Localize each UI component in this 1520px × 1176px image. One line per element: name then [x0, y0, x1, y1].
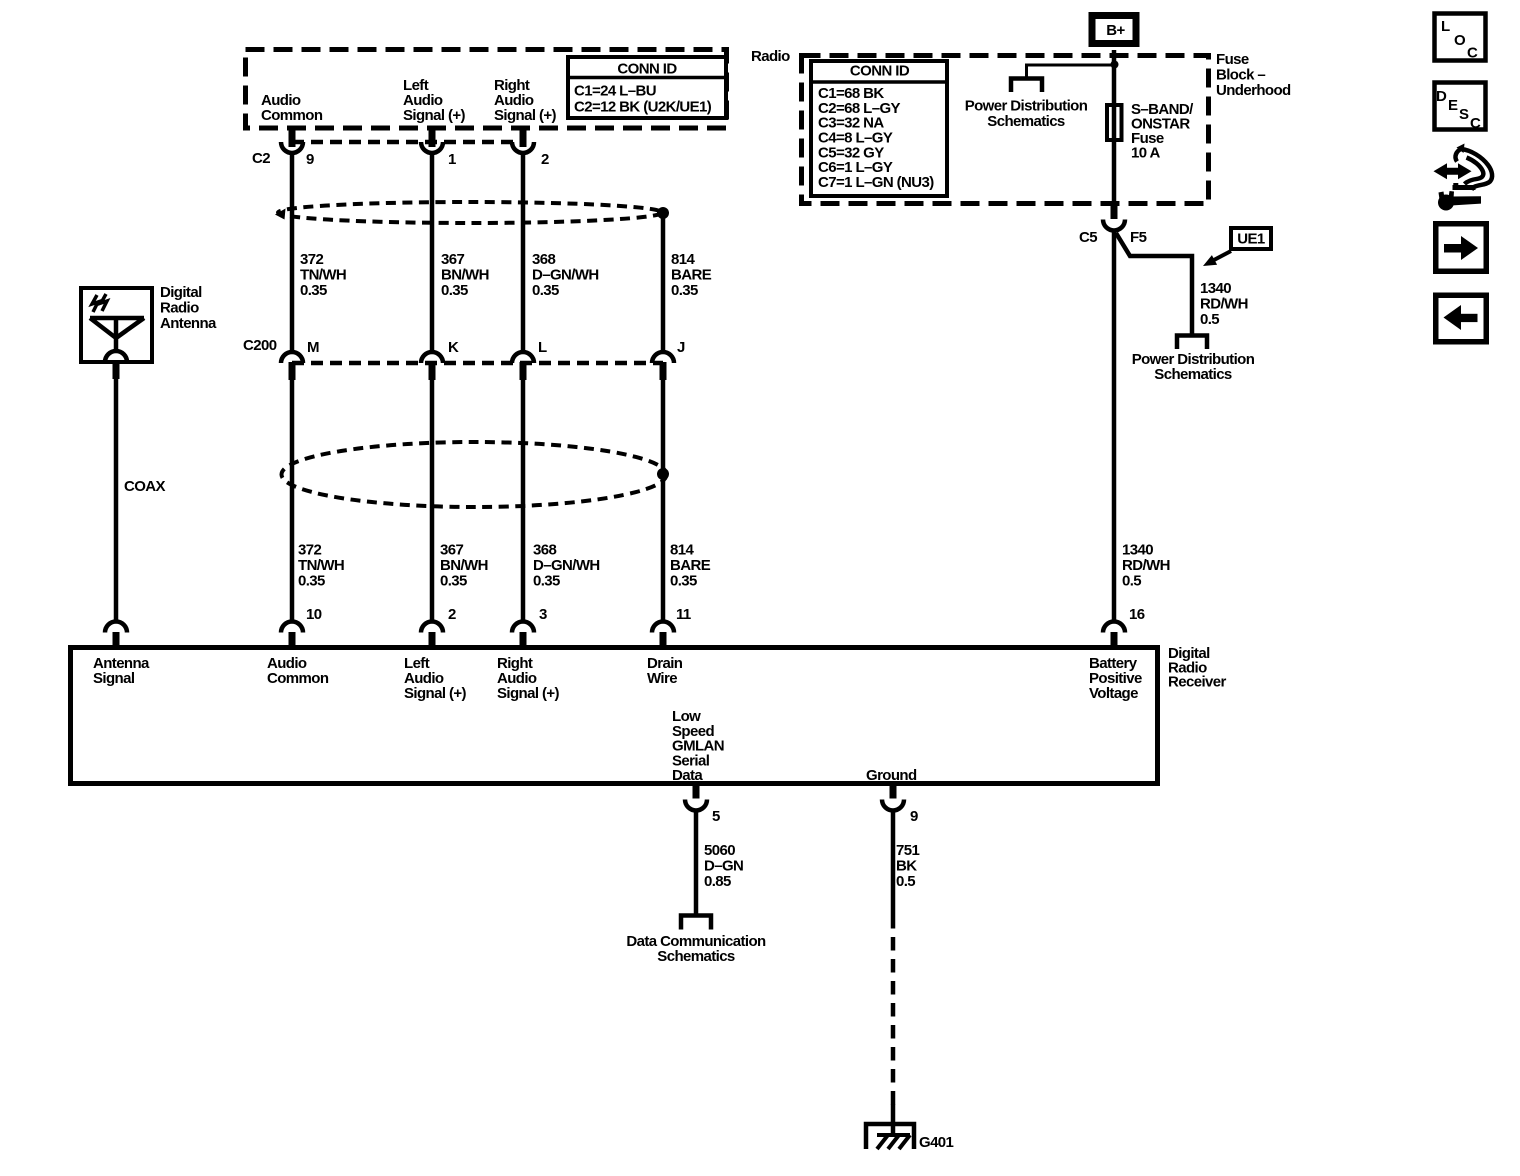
svg-text:F5: F5 — [1130, 229, 1147, 246]
svg-text:BK: BK — [896, 858, 917, 875]
svg-text:0.35: 0.35 — [671, 282, 698, 299]
wire right audio lower — [521, 379, 526, 622]
wire label 814 BARE 0.35 upper — [671, 251, 712, 299]
svg-text:Schematics: Schematics — [657, 948, 735, 965]
connector C200 cavity J — [652, 352, 674, 380]
radio dashed box — [246, 50, 727, 129]
svg-text:0.35: 0.35 — [670, 573, 697, 590]
svg-text:D–GN/WH: D–GN/WH — [533, 557, 600, 574]
connector C2 pin 2 — [512, 126, 534, 154]
svg-text:J: J — [677, 339, 685, 356]
svg-text:BARE: BARE — [671, 267, 712, 284]
svg-text:814: 814 — [671, 251, 695, 268]
svg-text:1340: 1340 — [1200, 280, 1231, 297]
receiver pin connector (right audio) — [512, 622, 534, 648]
svg-text:2: 2 — [541, 151, 549, 168]
connector C200 cavity K — [421, 352, 443, 380]
svg-text:0.5: 0.5 — [1122, 573, 1141, 590]
junction dot drain middle — [657, 468, 669, 480]
radio CONN ID table — [566, 57, 728, 118]
svg-text:K: K — [448, 339, 459, 356]
label Fuse Block Underhood — [1216, 51, 1291, 99]
off-page bracket power distribution (right) — [1177, 336, 1207, 350]
svg-text:COAX: COAX — [124, 478, 166, 495]
svg-text:C200: C200 — [243, 337, 277, 354]
wire label 367 BN/WH 0.35 upper — [441, 251, 489, 299]
receiver pin connector (antenna) — [105, 622, 127, 648]
svg-text:TN/WH: TN/WH — [300, 267, 346, 284]
receiver pin connector (left audio) — [421, 622, 443, 648]
icon LOC — [1435, 14, 1486, 62]
svg-text:10: 10 — [306, 606, 322, 623]
connector C200 cavity M — [281, 352, 303, 380]
svg-text:E: E — [1448, 97, 1458, 114]
wire audio common lower — [290, 379, 295, 622]
antenna output stub — [113, 361, 120, 379]
svg-text:BN/WH: BN/WH — [441, 267, 489, 284]
svg-text:5: 5 — [712, 808, 720, 825]
svg-text:C5: C5 — [1079, 229, 1097, 246]
label Digital Radio Antenna — [160, 284, 217, 332]
svg-text:UE1: UE1 — [1237, 231, 1265, 248]
icon arrow right — [1436, 224, 1487, 272]
svg-text:Digital: Digital — [160, 284, 202, 301]
svg-text:0.35: 0.35 — [532, 282, 559, 299]
wire label 372 TN/WH 0.35 upper — [300, 251, 346, 299]
svg-text:Receiver: Receiver — [1168, 674, 1227, 691]
svg-text:367: 367 — [441, 251, 464, 268]
svg-text:C2=12 BK (U2K/UE1): C2=12 BK (U2K/UE1) — [574, 99, 712, 116]
svg-text:Signal: Signal — [93, 670, 135, 687]
off-page bracket data communication — [681, 916, 711, 930]
label Power Distribution Schematics (left) — [965, 98, 1088, 131]
wire label 1340 RD/WH 0.5 upper — [1200, 280, 1248, 328]
svg-text:0.5: 0.5 — [1200, 311, 1219, 328]
svg-text:Block –: Block – — [1216, 67, 1265, 84]
UE1 pointer arrow — [1203, 251, 1231, 266]
svg-text:C: C — [1470, 115, 1481, 132]
svg-text:Signal (+): Signal (+) — [497, 685, 560, 702]
svg-text:814: 814 — [670, 542, 694, 559]
svg-text:Signal (+): Signal (+) — [403, 107, 466, 124]
svg-text:G401: G401 — [919, 1134, 954, 1151]
wire drain lower — [661, 379, 666, 622]
label Audio Common (radio pin) — [261, 92, 323, 124]
wire B+ down to C5 — [1112, 50, 1117, 204]
label Left Audio Signal (+) — [404, 655, 467, 702]
receiver pin connector (drain) — [652, 622, 674, 648]
svg-text:C7=1 L–GN (NU3): C7=1 L–GN (NU3) — [818, 174, 934, 191]
wire ground 751 dashed — [891, 915, 896, 1106]
shield ellipse lower — [282, 442, 667, 507]
svg-text:Data: Data — [672, 767, 703, 784]
svg-text:372: 372 — [298, 542, 321, 559]
svg-text:10 A: 10 A — [1131, 145, 1160, 162]
svg-text:0.35: 0.35 — [441, 282, 468, 299]
label Digital Radio Receiver — [1168, 645, 1227, 691]
svg-text:3: 3 — [539, 606, 547, 623]
wire ground 751 solid — [891, 810, 896, 915]
receiver pin connector (ground pin 9) — [882, 785, 904, 811]
wire serial data 5060 — [694, 810, 699, 916]
svg-text:9: 9 — [306, 151, 314, 168]
UE1 option box — [1231, 228, 1271, 249]
receiver pin connector (audio common) — [281, 622, 303, 648]
label S-BAND/ONSTAR Fuse 10 A — [1131, 101, 1194, 162]
svg-text:RD/WH: RD/WH — [1200, 296, 1248, 313]
svg-text:Ground: Ground — [866, 767, 917, 784]
connector C5 cavity F5 — [1103, 203, 1125, 231]
svg-text:Antenna: Antenna — [160, 315, 217, 332]
svg-text:Voltage: Voltage — [1089, 685, 1138, 702]
svg-text:0.5: 0.5 — [896, 873, 915, 890]
branch wire to UE1 power distribution — [1116, 233, 1192, 336]
svg-text:TN/WH: TN/WH — [298, 557, 344, 574]
wire label 372 TN/WH 0.35 lower — [298, 542, 344, 590]
svg-text:L: L — [538, 339, 547, 356]
wire ground stem — [891, 1104, 896, 1136]
connector C2 pin 1 — [421, 126, 443, 154]
ground G401 — [866, 1124, 914, 1149]
svg-text:B+: B+ — [1106, 22, 1125, 39]
branch wire to power distribution — [1027, 65, 1114, 79]
wire battery main — [1112, 230, 1117, 622]
svg-text:D–GN: D–GN — [704, 858, 743, 875]
svg-text:0.35: 0.35 — [533, 573, 560, 590]
svg-text:Common: Common — [267, 670, 329, 687]
svg-text:C2: C2 — [252, 150, 270, 167]
svg-text:368: 368 — [532, 251, 555, 268]
svg-text:S: S — [1459, 106, 1469, 123]
label Right Audio Signal (+) — [497, 655, 560, 702]
label Audio Common — [267, 655, 329, 687]
fuse S-BAND/ONSTAR 10A — [1107, 105, 1122, 140]
svg-text:Signal (+): Signal (+) — [494, 107, 557, 124]
svg-text:L: L — [1441, 18, 1450, 35]
svg-text:9: 9 — [910, 808, 918, 825]
label Right Audio Signal (+) (radio pin) — [494, 77, 557, 124]
svg-text:0.35: 0.35 — [440, 573, 467, 590]
svg-text:0.35: 0.35 — [298, 573, 325, 590]
connector C200 cavity L — [512, 352, 534, 380]
svg-text:CONN ID: CONN ID — [617, 61, 677, 78]
svg-text:Power Distribution: Power Distribution — [965, 98, 1088, 115]
wire left audio lower — [430, 379, 435, 622]
wire label 367 BN/WH 0.35 lower — [440, 542, 488, 590]
svg-text:O: O — [1454, 32, 1466, 49]
fuse block dashed box — [802, 56, 1209, 204]
svg-text:0.85: 0.85 — [704, 873, 731, 890]
svg-text:C1=24 L–BU: C1=24 L–BU — [574, 83, 656, 100]
svg-text:Signal (+): Signal (+) — [404, 685, 467, 702]
C2 harness dashed line — [292, 140, 523, 145]
svg-text:Radio: Radio — [751, 48, 790, 65]
svg-text:11: 11 — [676, 606, 691, 623]
svg-text:C: C — [1467, 45, 1478, 62]
svg-text:Schematics: Schematics — [987, 113, 1065, 130]
svg-text:751: 751 — [896, 842, 919, 859]
svg-text:372: 372 — [300, 251, 323, 268]
wire label 751 BK 0.5 — [896, 842, 919, 890]
antenna symbol — [90, 318, 144, 362]
icon arrow left — [1436, 295, 1487, 342]
wire left audio upper — [430, 152, 435, 353]
label Antenna Signal — [93, 655, 150, 687]
wire label 368 D-GN/WH 0.35 lower — [533, 542, 600, 590]
svg-text:D–GN/WH: D–GN/WH — [532, 267, 599, 284]
wire audio common upper — [290, 152, 295, 353]
svg-text:Underhood: Underhood — [1216, 82, 1291, 99]
svg-text:2: 2 — [448, 606, 456, 623]
svg-text:5060: 5060 — [704, 842, 735, 859]
receiver pin connector (battery) — [1103, 622, 1125, 648]
svg-text:Common: Common — [261, 107, 323, 124]
connector C2 pin 9 — [281, 126, 303, 154]
wire right audio upper — [521, 152, 526, 353]
svg-text:BARE: BARE — [670, 557, 711, 574]
battery B+ box — [1092, 16, 1136, 44]
svg-text:Wire: Wire — [647, 670, 677, 687]
svg-text:0.35: 0.35 — [300, 282, 327, 299]
svg-text:D: D — [1436, 88, 1447, 105]
wire label 5060 D-GN 0.85 — [704, 842, 743, 890]
svg-text:Schematics: Schematics — [1154, 366, 1232, 383]
receiver pin connector (serial data pin 5) — [685, 785, 707, 811]
svg-text:368: 368 — [533, 542, 556, 559]
svg-text:16: 16 — [1129, 606, 1145, 623]
icon DESC — [1435, 83, 1486, 133]
svg-text:1340: 1340 — [1122, 542, 1153, 559]
label Data Communication Schematics — [626, 933, 766, 965]
junction dot battery feed — [1111, 61, 1119, 69]
svg-text:RD/WH: RD/WH — [1122, 557, 1170, 574]
wire label 1340 RD/WH 0.5 lower — [1122, 542, 1170, 590]
fuse block CONN ID table — [809, 61, 949, 196]
icon tools / navigation — [1434, 144, 1493, 211]
junction dot drain top — [657, 207, 669, 219]
svg-text:Fuse: Fuse — [1216, 51, 1249, 68]
label Drain Wire — [647, 655, 683, 687]
coax wire — [114, 378, 119, 622]
label Power Distribution Schematics (right) — [1132, 351, 1255, 383]
wire label 814 BARE 0.35 lower — [670, 542, 711, 590]
svg-text:367: 367 — [440, 542, 463, 559]
digital radio receiver box — [71, 648, 1158, 784]
label Low Speed GMLAN Serial Data — [672, 708, 724, 784]
svg-text:Radio: Radio — [160, 300, 199, 317]
antenna static marks — [92, 294, 107, 312]
C200 harness dashed line — [292, 361, 663, 366]
wire drain upper — [661, 213, 666, 353]
svg-text:BN/WH: BN/WH — [440, 557, 488, 574]
svg-text:CONN ID: CONN ID — [850, 63, 910, 80]
wire label 368 D-GN/WH 0.35 upper — [532, 251, 599, 299]
digital radio antenna box — [81, 288, 152, 362]
svg-text:M: M — [307, 339, 319, 356]
shield ellipse upper — [275, 202, 662, 223]
label Left Audio Signal (+) (radio pin) — [403, 77, 466, 124]
off-page bracket power distribution (left) — [1011, 79, 1042, 93]
label Battery Positive Voltage — [1089, 655, 1142, 702]
svg-text:1: 1 — [448, 151, 456, 168]
